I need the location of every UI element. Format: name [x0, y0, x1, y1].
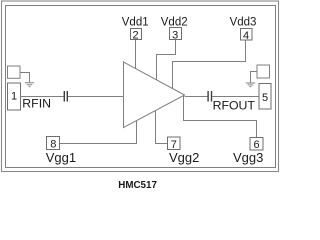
wire Vgg2 to amplifier	[156, 111, 168, 144]
svg-text:Vgg2: Vgg2	[169, 150, 199, 165]
op-amp U1 (amplifier triangle)	[124, 62, 185, 128]
pin 2 box	[131, 29, 142, 40]
capacitor C1 (input DC block)	[64, 91, 67, 102]
wire Vdd3 to amplifier	[173, 40, 246, 89]
svg-text:RFIN: RFIN	[22, 96, 51, 110]
svg-text:4: 4	[243, 30, 249, 42]
svg-text:3: 3	[172, 30, 178, 42]
svg-text:Vgg1: Vgg1	[46, 150, 76, 165]
pin 6 box	[250, 138, 263, 151]
svg-text:Vgg3: Vgg3	[233, 150, 263, 165]
wire Vdd1 to amplifier	[135, 40, 137, 69]
svg-text:8: 8	[50, 138, 56, 150]
wire capacitor to amplifier input	[68, 96, 124, 98]
svg-text:HMC517: HMC517	[118, 180, 157, 191]
ground (left)	[25, 83, 34, 87]
svg-text:Vdd3: Vdd3	[230, 17, 257, 29]
pin 7 box	[168, 137, 181, 150]
figure outer border	[2, 1, 279, 172]
svg-text:RFOUT: RFOUT	[213, 99, 256, 113]
svg-text:Vdd1: Vdd1	[122, 17, 149, 29]
wire Vgg3 to output node	[184, 96, 257, 138]
IC package frame	[6, 6, 276, 168]
pin 5 box	[259, 84, 271, 110]
wire pad to ground (right)	[251, 72, 258, 83]
svg-text:1: 1	[11, 91, 17, 103]
wire RFIN to capacitor	[21, 96, 64, 98]
pin 3 box	[170, 28, 182, 40]
ground (right)	[246, 83, 255, 87]
pin 8 box	[47, 137, 60, 150]
svg-text:5: 5	[262, 92, 268, 104]
wire Vdd2 to amplifier	[157, 40, 176, 80]
ground pad (top-left square)	[8, 66, 21, 78]
pin 4 box	[241, 29, 253, 41]
svg-text:Vdd2: Vdd2	[161, 17, 188, 29]
capacitor C2 (output DC block)	[208, 91, 211, 102]
wire Vgg1 to amplifier	[60, 121, 137, 144]
wire amplifier output to capacitor	[185, 96, 208, 98]
pin 1 box	[8, 83, 21, 110]
ground pad (top-right square)	[257, 65, 270, 78]
svg-text:2: 2	[132, 29, 138, 41]
wire capacitor to RFOUT	[212, 96, 259, 98]
wire pad to ground (left)	[20, 73, 30, 83]
